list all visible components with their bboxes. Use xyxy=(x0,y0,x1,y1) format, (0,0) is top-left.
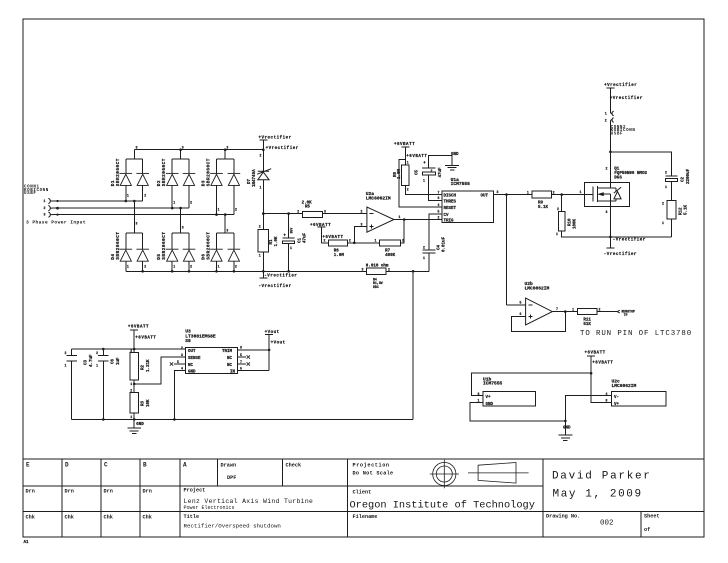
svg-text:4: 4 xyxy=(438,203,440,207)
svg-text:Projection: Projection xyxy=(353,463,390,469)
svg-text:R10: R10 xyxy=(568,218,572,226)
svg-text:2: 2 xyxy=(260,154,262,158)
svg-text:C: C xyxy=(104,462,108,469)
wire +6V rail xyxy=(72,348,186,350)
svg-text:David Parker: David Parker xyxy=(552,471,652,483)
node phase B / D5 drop xyxy=(179,207,182,210)
svg-text:RESET: RESET xyxy=(444,207,457,211)
diode D3 package xyxy=(217,150,234,215)
node U3 gnd xyxy=(173,418,176,421)
node phase A / D4 drop xyxy=(133,200,136,203)
svg-text:Chk: Chk xyxy=(143,515,152,521)
node phase B / D2 xyxy=(171,207,174,210)
svg-text:SBR2060CT: SBR2060CT xyxy=(207,158,212,186)
svg-text:5: 5 xyxy=(177,360,179,364)
diode D4 left xyxy=(120,249,133,261)
node drain xyxy=(609,151,612,154)
svg-text:2: 2 xyxy=(423,246,425,250)
node zener top xyxy=(262,148,265,151)
svg-text:-Vrectifier: -Vrectifier xyxy=(259,284,292,289)
diode D5 right xyxy=(183,249,196,261)
resistor R12 xyxy=(667,201,676,219)
svg-text:+Vrectifier: +Vrectifier xyxy=(610,96,643,101)
svg-text:1.0M: 1.0M xyxy=(398,168,402,179)
wire R5 to opamp xyxy=(323,213,367,215)
svg-text:2: 2 xyxy=(259,225,261,229)
svg-text:2: 2 xyxy=(553,190,555,194)
svg-text:+6VBATT: +6VBATT xyxy=(128,326,149,330)
svg-text:LMC6062IM: LMC6062IM xyxy=(525,285,550,291)
svg-text:C6: C6 xyxy=(112,358,116,364)
pin numbers bridge xyxy=(127,145,237,268)
svg-text:V+: V+ xyxy=(614,403,620,407)
svg-text:DBC: DBC xyxy=(373,285,379,289)
svg-text:IN: IN xyxy=(230,370,236,374)
svg-text:2: 2 xyxy=(190,201,192,205)
wire reset branch xyxy=(399,160,442,207)
node -V drop xyxy=(412,270,415,273)
svg-text:3: 3 xyxy=(606,210,608,214)
svg-text:3: 3 xyxy=(497,190,499,194)
svg-text:6: 6 xyxy=(438,196,440,200)
svg-text:0.01uF: 0.01uF xyxy=(443,236,447,252)
svg-text:4: 4 xyxy=(606,392,608,396)
svg-text:Lenz Vertical Axis Wind Turbin: Lenz Vertical Axis Wind Turbine xyxy=(184,498,314,505)
capacitor C3 xyxy=(66,349,77,419)
svg-text:+6VBATT: +6VBATT xyxy=(135,336,156,340)
power flag -Vrectifier right xyxy=(606,237,614,248)
svg-text:1: 1 xyxy=(407,161,409,165)
svg-text:Filename: Filename xyxy=(353,514,378,520)
svg-text:SBR2060CT: SBR2060CT xyxy=(162,158,167,186)
IC U2c box xyxy=(612,391,667,406)
IC U1b box xyxy=(483,391,536,406)
node line to R5 xyxy=(263,213,302,215)
svg-text:100K: 100K xyxy=(573,218,577,229)
capacitor C5 xyxy=(422,167,435,169)
svg-text:3 Phase Power Input: 3 Phase Power Input xyxy=(26,220,86,226)
svg-text:Rectifier/Overspeed shutdown: Rectifier/Overspeed shutdown xyxy=(184,523,281,530)
svg-text:3: 3 xyxy=(44,213,46,217)
svg-text:C1: C1 xyxy=(298,237,302,243)
wire GND pin xyxy=(174,371,185,420)
svg-text:1: 1 xyxy=(572,307,574,311)
resistor R7 xyxy=(380,240,401,246)
svg-text:2: 2 xyxy=(402,239,404,243)
node +6v branch xyxy=(590,372,593,375)
svg-text:SBR2060CT: SBR2060CT xyxy=(116,231,121,259)
svg-text:7: 7 xyxy=(240,360,242,364)
svg-text:+Vrectifier: +Vrectifier xyxy=(604,83,637,88)
node output feedback xyxy=(403,218,406,221)
svg-text:R6: R6 xyxy=(334,250,340,254)
diode D1 package xyxy=(126,150,143,201)
svg-text:2: 2 xyxy=(407,188,409,192)
svg-text:Drn: Drn xyxy=(26,489,35,495)
svg-text:3: 3 xyxy=(226,145,228,149)
svg-text:+6VBATT: +6VBATT xyxy=(310,224,331,228)
svg-text:NC: NC xyxy=(188,364,194,368)
wire +V bus xyxy=(134,149,263,151)
svg-text:DISCH: DISCH xyxy=(444,194,457,198)
svg-text:2: 2 xyxy=(662,202,664,206)
node D5 left on -V bus xyxy=(171,270,174,273)
svg-text:8: 8 xyxy=(606,399,608,403)
svg-text:1: 1 xyxy=(218,265,220,269)
wire OUT xyxy=(493,194,532,196)
node phase B arrow xyxy=(56,207,59,210)
svg-text:-Vrectifier: -Vrectifier xyxy=(264,274,297,279)
wire conn2 to drain node xyxy=(609,120,611,151)
node gnd branch xyxy=(564,420,567,423)
svg-text:2: 2 xyxy=(438,215,440,219)
svg-text:R5: R5 xyxy=(305,206,311,210)
svg-text:GND: GND xyxy=(486,403,494,407)
svg-text:USBF: USBF xyxy=(611,133,623,137)
ground blocks xyxy=(559,421,573,441)
wire NC left xyxy=(174,363,185,365)
node phase A / D1 xyxy=(125,200,128,203)
wire U3b gnd xyxy=(470,402,566,421)
svg-text:Client: Client xyxy=(353,490,372,496)
svg-text:C5: C5 xyxy=(416,169,420,175)
nc marks xyxy=(170,362,173,365)
svg-text:Project: Project xyxy=(184,488,206,494)
svg-text:2: 2 xyxy=(605,119,607,123)
wire sense branch xyxy=(134,357,185,384)
resistor R4 shunt xyxy=(366,268,386,274)
svg-text:NC: NC xyxy=(227,364,233,368)
svg-text:2: 2 xyxy=(190,265,192,269)
svg-text:2200uF: 2200uF xyxy=(687,168,691,184)
node source bus xyxy=(609,236,612,239)
ground xyxy=(445,165,459,170)
resistor R1 xyxy=(262,214,264,230)
node C6 bottom xyxy=(102,418,105,421)
connector CONN1 pin 3 xyxy=(48,212,52,217)
power flag +6VBATT blocks xyxy=(587,356,611,403)
svg-text:2: 2 xyxy=(65,351,67,355)
svg-text:002: 002 xyxy=(600,520,614,528)
wire TRIM right xyxy=(237,349,269,351)
svg-text:4.7uF: 4.7uF xyxy=(90,354,94,367)
svg-text:2: 2 xyxy=(606,167,608,171)
svg-text:+6VBATT: +6VBATT xyxy=(322,236,343,240)
svg-text:2: 2 xyxy=(181,346,183,350)
svg-text:2: 2 xyxy=(144,265,146,269)
junction dots bridge xyxy=(125,148,236,272)
capacitor C4 xyxy=(422,214,442,271)
svg-text:499K: 499K xyxy=(385,254,396,258)
svg-text:1: 1 xyxy=(44,199,46,203)
svg-text:D7: D7 xyxy=(248,178,252,184)
node D6 left on -V bus xyxy=(215,270,218,273)
IC U3 box xyxy=(185,347,237,373)
diode D1 left xyxy=(120,173,133,185)
svg-text:+Vout: +Vout xyxy=(265,331,280,335)
svg-text:3: 3 xyxy=(136,145,138,149)
svg-text:2: 2 xyxy=(349,239,351,243)
svg-text:1: 1 xyxy=(665,185,667,189)
svg-text:+6VBATT: +6VBATT xyxy=(585,351,606,355)
svg-text:E: E xyxy=(26,462,30,469)
svg-text:+6VBATT: +6VBATT xyxy=(394,143,415,147)
svg-text:LMC6062IM: LMC6062IM xyxy=(366,195,391,201)
op-amp U2b xyxy=(526,298,553,325)
svg-text:47uF: 47uF xyxy=(304,232,308,243)
diode D5 package xyxy=(172,208,189,271)
transistor Q1 mosfet symbol xyxy=(592,187,594,202)
svg-text:1: 1 xyxy=(127,194,129,198)
diode D2 package xyxy=(172,150,189,208)
node gnd xyxy=(133,418,136,421)
connector CONN2 pin 2 xyxy=(610,118,613,123)
svg-text:GND: GND xyxy=(563,426,571,430)
power flag +6VBATT U3 xyxy=(130,330,138,349)
svg-text:GND: GND xyxy=(136,423,144,427)
svg-text:2: 2 xyxy=(96,351,98,355)
wire output xyxy=(552,311,577,313)
svg-text:V-: V- xyxy=(614,396,619,400)
svg-text:7: 7 xyxy=(556,307,558,311)
svg-text:+Vout: +Vout xyxy=(271,342,286,346)
svg-text:6: 6 xyxy=(240,367,242,371)
IC U1a 555 box xyxy=(442,191,493,222)
svg-text:SBR2060CT: SBR2060CT xyxy=(116,158,121,186)
svg-text:+Vrectifier: +Vrectifier xyxy=(266,146,299,151)
svg-text:R12: R12 xyxy=(680,207,684,215)
svg-text:Drn: Drn xyxy=(65,489,74,495)
svg-text:1: 1 xyxy=(96,364,98,368)
wire R11 to runstop xyxy=(597,311,617,313)
svg-text:R9: R9 xyxy=(538,201,544,205)
svg-text:3: 3 xyxy=(136,222,138,226)
wire IN pin xyxy=(237,370,269,372)
svg-text:A1: A1 xyxy=(24,541,30,545)
svg-text:May 1, 2009: May 1, 2009 xyxy=(553,489,643,501)
svg-text:C4: C4 xyxy=(438,244,442,250)
svg-text:Do Not Scale: Do Not Scale xyxy=(353,471,394,477)
svg-text:8: 8 xyxy=(240,346,242,350)
svg-text:1: 1 xyxy=(130,382,132,386)
svg-text:Chk: Chk xyxy=(26,515,35,521)
node D5 right on -V bus xyxy=(188,270,191,273)
svg-text:6: 6 xyxy=(520,312,522,316)
wire branch to U3b xyxy=(471,373,591,395)
svg-text:Title: Title xyxy=(184,514,200,520)
svg-text:1: 1 xyxy=(290,246,292,250)
power flag +Vrectifier xyxy=(259,140,267,150)
svg-text:2: 2 xyxy=(130,389,132,393)
svg-text:3: 3 xyxy=(226,229,228,233)
wire plus input xyxy=(354,227,367,243)
svg-text:3: 3 xyxy=(182,145,184,149)
wire R8 to DISCH xyxy=(405,186,442,195)
svg-text:OUT: OUT xyxy=(188,350,196,354)
svg-text:Drawing No.: Drawing No. xyxy=(546,514,580,520)
pin names 555 xyxy=(444,194,489,223)
svg-text:S8: S8 xyxy=(185,338,191,344)
svg-text:2: 2 xyxy=(144,194,146,198)
svg-text:1: 1 xyxy=(65,364,67,368)
wire -V sense drop xyxy=(412,271,414,419)
node D3 top on +V bus xyxy=(224,148,227,151)
svg-text:Drn: Drn xyxy=(104,489,113,495)
node plus input xyxy=(353,242,356,245)
node D4 on -V bus xyxy=(141,270,144,273)
wire plus input feedback xyxy=(511,312,565,332)
node R1 bottom xyxy=(262,270,265,273)
capacitor C2 xyxy=(666,175,678,177)
svg-text:-Vrectifier: -Vrectifier xyxy=(613,238,646,243)
resistor R10 xyxy=(561,195,563,212)
wire minus input xyxy=(507,304,526,306)
svg-text:ICM7555: ICM7555 xyxy=(451,181,471,187)
node D2 top on +V bus xyxy=(179,148,182,151)
svg-text:C2: C2 xyxy=(682,176,686,182)
ground U3 xyxy=(127,419,141,433)
svg-text:2: 2 xyxy=(130,349,132,353)
svg-text:1: 1 xyxy=(580,190,582,194)
svg-text:SBR2060CT: SBR2060CT xyxy=(162,231,167,259)
svg-text:Oregon Institute of Technology: Oregon Institute of Technology xyxy=(350,499,535,511)
svg-text:35V: 35V xyxy=(290,228,294,234)
resistor R8 xyxy=(402,165,409,186)
diode D4 package xyxy=(126,201,143,271)
svg-text:1: 1 xyxy=(173,201,175,205)
wire R9 to gate xyxy=(552,194,593,196)
svg-text:3: 3 xyxy=(324,209,326,213)
svg-text:V+: V+ xyxy=(486,396,492,400)
svg-text:5.1K: 5.1K xyxy=(538,206,549,210)
wire drain xyxy=(609,152,611,188)
svg-text:DPF: DPF xyxy=(227,475,236,481)
svg-text:3: 3 xyxy=(182,226,184,230)
svg-text:1: 1 xyxy=(218,207,220,211)
capacitor C6 xyxy=(98,349,109,419)
svg-text:+6VBATT: +6VBATT xyxy=(592,361,613,365)
node R2 top xyxy=(133,348,136,351)
title block lines xyxy=(23,458,704,460)
svg-text:OUT: OUT xyxy=(481,194,489,198)
resistor R5 xyxy=(303,211,323,217)
svg-text:NC: NC xyxy=(227,357,233,361)
svg-text:5: 5 xyxy=(520,301,522,305)
svg-text:1uF: 1uF xyxy=(117,357,121,365)
resistor R9 xyxy=(532,191,552,198)
resistor R11 xyxy=(578,308,597,314)
svg-text:1: 1 xyxy=(130,415,132,419)
wire NC right pins xyxy=(237,357,246,364)
node R10 top xyxy=(560,193,563,196)
svg-text:1: 1 xyxy=(399,215,401,219)
diode D1 right xyxy=(136,173,149,185)
pin names U3 xyxy=(188,350,236,375)
svg-text:2: 2 xyxy=(665,171,667,175)
svg-text:R3: R3 xyxy=(142,400,146,406)
svg-text:TRIG: TRIG xyxy=(444,220,455,224)
wire phase B xyxy=(53,207,189,209)
pin numbers 555 xyxy=(438,190,499,219)
wire phase A xyxy=(53,200,143,202)
svg-text:1: 1 xyxy=(478,399,480,403)
svg-text:of: of xyxy=(644,527,650,533)
svg-text:GND: GND xyxy=(451,153,459,157)
svg-text:Q1: Q1 xyxy=(614,168,620,172)
svg-text:Drawn: Drawn xyxy=(221,463,237,469)
svg-text:1: 1 xyxy=(260,186,262,190)
svg-text:2: 2 xyxy=(431,169,433,173)
node C1 top xyxy=(287,212,290,215)
diode D6 right xyxy=(228,249,241,261)
svg-text:A: A xyxy=(183,462,187,469)
svg-text:SENSE: SENSE xyxy=(188,357,201,361)
svg-text:R7: R7 xyxy=(385,250,391,254)
power flag +6VBATT R8 xyxy=(401,147,409,165)
svg-text:ICM7555: ICM7555 xyxy=(483,381,503,387)
node phase C arrow xyxy=(56,214,58,216)
diode D6 left xyxy=(210,249,223,261)
svg-text:Chk: Chk xyxy=(65,515,74,521)
svg-text:DGS: DGS xyxy=(614,177,622,181)
svg-text:1: 1 xyxy=(605,112,607,116)
node zener bottom xyxy=(262,212,265,215)
svg-text:+Vrectifier: +Vrectifier xyxy=(259,136,292,141)
svg-text:1: 1 xyxy=(662,221,664,225)
svg-text:1: 1 xyxy=(423,179,425,183)
svg-text:2: 2 xyxy=(324,239,326,243)
wire C5 top to GND xyxy=(429,155,452,168)
node phase C / D3 xyxy=(215,213,218,216)
wire GND rail xyxy=(72,418,413,420)
svg-text:3: 3 xyxy=(181,353,183,357)
power flag +6VBATT mid xyxy=(317,227,325,243)
wire source xyxy=(609,194,611,237)
diode D4 right xyxy=(136,249,149,261)
wire phase C xyxy=(53,214,234,216)
power flag -Vrectifier xyxy=(259,271,267,278)
svg-text:47uF: 47uF xyxy=(439,167,443,178)
svg-text:1: 1 xyxy=(423,256,425,260)
svg-text:1: 1 xyxy=(527,190,529,194)
svg-text:R1: R1 xyxy=(270,239,274,245)
capacitor C1 xyxy=(283,214,295,239)
svg-text:5.1K: 5.1K xyxy=(685,204,689,215)
svg-text:1: 1 xyxy=(173,265,175,269)
wire -V bus left xyxy=(126,270,367,272)
svg-text:1.0K: 1.0K xyxy=(275,236,279,247)
diode D3 right xyxy=(228,173,241,185)
svg-text:3: 3 xyxy=(362,268,364,272)
wire U2c vminus xyxy=(565,396,611,421)
svg-text:2: 2 xyxy=(361,210,363,214)
diode D2 right xyxy=(183,173,196,185)
svg-text:2: 2 xyxy=(599,307,601,311)
node trim xyxy=(268,349,271,352)
resistor R6 xyxy=(328,240,347,246)
svg-text:2: 2 xyxy=(297,209,299,213)
svg-text:5: 5 xyxy=(438,210,440,214)
svg-text:TO RUN PIN OF LTC3780: TO RUN PIN OF LTC3780 xyxy=(580,330,692,338)
power flag +Vrectifier right xyxy=(606,88,614,113)
svg-text:FQP50N06 NMOS: FQP50N06 NMOS xyxy=(614,172,647,176)
wire R6 row xyxy=(321,242,379,244)
svg-text:-Vrectifier: -Vrectifier xyxy=(604,252,637,257)
connector CONN1 pin 2 xyxy=(48,206,52,211)
diode D2 left xyxy=(166,173,179,185)
wire drain node to C2 xyxy=(610,152,671,176)
node phase A arrow xyxy=(56,200,58,202)
